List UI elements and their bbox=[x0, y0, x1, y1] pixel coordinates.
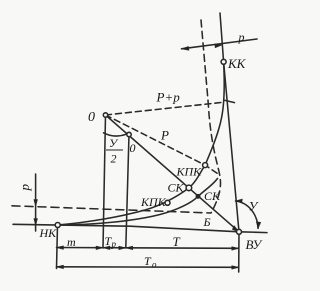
svg-text:Т: Т bbox=[173, 234, 181, 249]
svg-text:m: m bbox=[67, 235, 76, 249]
wire bottom tangent line НК-ВУ bbox=[13, 224, 267, 232]
curve outer (original circular curve) НК through СК dot bbox=[58, 179, 218, 226]
svg-text:р: р bbox=[17, 184, 32, 192]
dimension p left vertical arrow bbox=[35, 174, 37, 231]
angle У arc at ВУ with arrows bbox=[236, 201, 259, 228]
svg-text:КК: КК bbox=[227, 56, 247, 71]
node КПК1 circle bbox=[165, 200, 170, 205]
wire vertical from ВУ bbox=[238, 232, 240, 272]
svg-text:Т: Т bbox=[144, 254, 152, 268]
svg-text:о: о bbox=[152, 260, 157, 270]
curve inner (curve with transitions) НК-КПК-СК-КПК-КК bbox=[58, 62, 224, 225]
wire vertical from НК bbox=[57, 225, 58, 269]
node СК circle bbox=[186, 185, 192, 191]
dimension row 2 То line bbox=[57, 266, 239, 269]
svg-text:0: 0 bbox=[130, 141, 136, 155]
svg-text:2: 2 bbox=[111, 152, 117, 166]
wire bisector О-ВУ bbox=[106, 115, 240, 232]
dashed radius Р+р from О bbox=[106, 102, 224, 115]
dimension p top right line bbox=[182, 39, 258, 49]
node КПК2 circle bbox=[203, 163, 208, 168]
svg-text:КПК: КПК bbox=[140, 195, 167, 209]
dashed original tangent and curve top right bbox=[201, 20, 221, 213]
svg-text:КПК: КПК bbox=[176, 165, 203, 179]
dimension row Тр arrows bbox=[103, 246, 110, 250]
svg-text:р: р bbox=[111, 239, 117, 249]
svg-text:ВУ: ВУ bbox=[246, 237, 264, 252]
svg-text:Б: Б bbox=[203, 215, 211, 229]
svg-text:СК: СК bbox=[204, 189, 221, 203]
arrowhead bisector at ВУ bbox=[232, 226, 239, 232]
wire vertical from О1 bbox=[126, 135, 129, 249]
node КК circle bbox=[221, 59, 226, 64]
svg-text:НК: НК bbox=[39, 226, 58, 240]
angle У/2 arc at О bbox=[104, 133, 127, 136]
tick at Р+р on tangent bbox=[225, 100, 235, 102]
dimension row m arrows bbox=[57, 246, 64, 250]
node ВУ circle bbox=[237, 229, 242, 234]
svg-text:0: 0 bbox=[88, 110, 95, 125]
wire right tangent line ВУ-КК bbox=[220, 13, 239, 232]
svg-text:Р+р: Р+р bbox=[156, 90, 181, 105]
dashed shifted tangent bottom bbox=[12, 206, 211, 213]
svg-text:р: р bbox=[238, 30, 245, 44]
dashed radius Р from О to КПК bbox=[106, 115, 218, 174]
node СК dot filled bbox=[196, 195, 199, 198]
dimension row Т arrows bbox=[126, 246, 133, 250]
node О1 center circle bbox=[127, 132, 131, 136]
dimension row 1 line bbox=[57, 247, 239, 250]
wire vertical from О bbox=[103, 115, 106, 248]
node О center circle bbox=[103, 113, 107, 117]
svg-text:Р: Р bbox=[160, 128, 169, 143]
node НК circle bbox=[55, 223, 60, 228]
svg-text:У: У bbox=[109, 136, 119, 150]
svg-text:СК: СК bbox=[168, 181, 185, 195]
svg-text:У: У bbox=[249, 199, 260, 214]
